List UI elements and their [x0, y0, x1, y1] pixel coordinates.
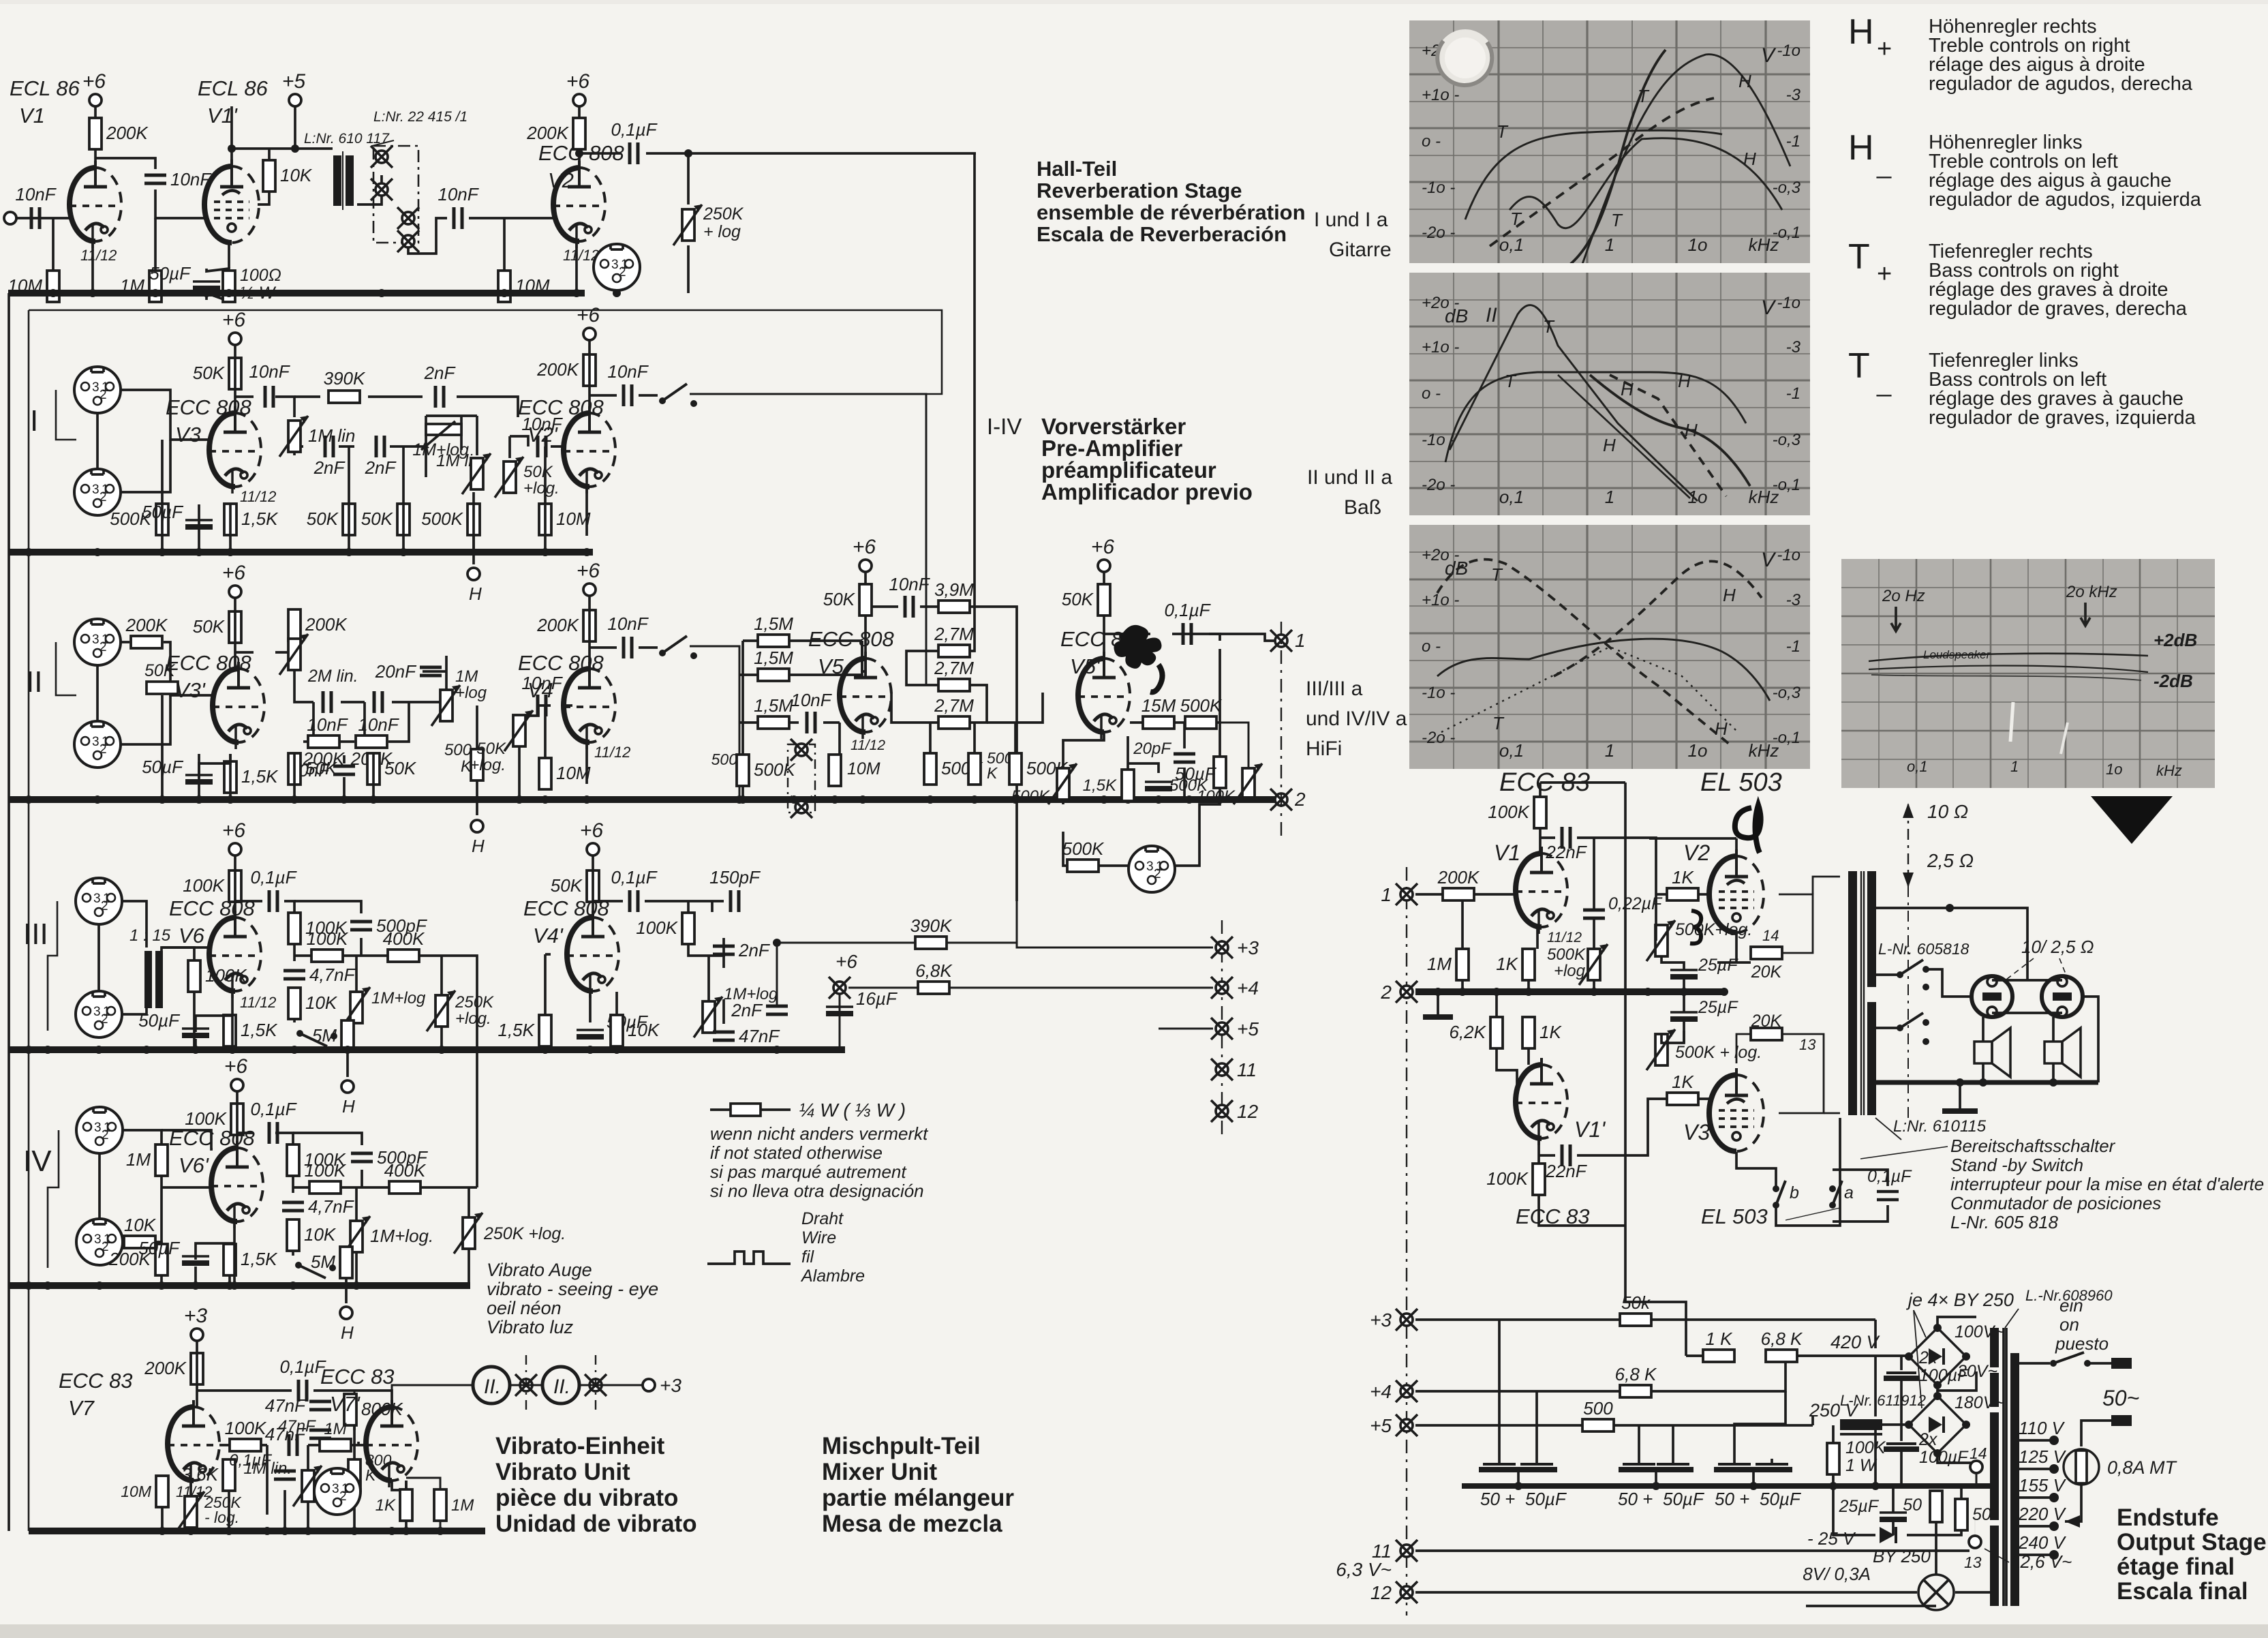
- svg-text:50K: 50K: [307, 509, 339, 529]
- resistor 100K channel IV anode: [185, 1104, 243, 1135]
- din socket channel III lower: [76, 991, 122, 1037]
- speaker socket 2: [2042, 976, 2083, 1017]
- diode BY250: [1873, 1527, 1931, 1566]
- channel I ground bus: [9, 549, 593, 556]
- svg-text:1M: 1M: [451, 1496, 474, 1515]
- svg-text:V3': V3': [175, 678, 206, 702]
- resistor 2.7M mixer a: [934, 624, 974, 657]
- svg-text:2nF: 2nF: [424, 363, 457, 383]
- hall ground bus: [8, 290, 585, 297]
- svg-text:11/12: 11/12: [240, 488, 276, 505]
- terminal 1 amp: [1396, 883, 1417, 905]
- svg-text:500: 500: [444, 741, 472, 759]
- svg-text:Vibrato Auge: Vibrato Auge: [487, 1260, 592, 1280]
- svg-text:V2: V2: [1683, 840, 1710, 865]
- terminal 13: [1969, 1536, 1981, 1548]
- resistor 500 supply: [1582, 1398, 1614, 1431]
- svg-text:+log.: +log.: [470, 756, 506, 774]
- bottom scan shadow: [0, 1624, 2268, 1638]
- callout 10/2.5 to sockets: [2004, 958, 2068, 982]
- resistor 1.5K ch III b: [498, 1015, 552, 1046]
- svg-text:+6: +6: [82, 70, 106, 93]
- legend wire symbol: [707, 1252, 791, 1264]
- tube label ECC83 amp bottom: [1516, 1204, 1590, 1228]
- svg-text:_: _: [1876, 369, 1892, 397]
- capacitor 50uF ch III b: [577, 1012, 649, 1040]
- svg-text:20nF: 20nF: [375, 661, 417, 682]
- svg-text:2,7M: 2,7M: [934, 624, 974, 644]
- resistor 10K ch III b: [611, 1015, 660, 1046]
- chart panel II curves: [1445, 305, 1750, 501]
- supply +6 channel III V4p: [580, 819, 604, 855]
- resistor 10K screen: [263, 160, 313, 192]
- channel I bottom legs: [162, 446, 545, 564]
- svg-text:10nF: 10nF: [889, 574, 930, 594]
- capacitor 2x100uF a: [1884, 1348, 1969, 1412]
- svg-text:13: 13: [1799, 1036, 1816, 1053]
- svg-text:-1o -: -1o -: [1422, 179, 1455, 197]
- capacitor 0.1uF mixer out: [1164, 600, 1211, 645]
- svg-text:BY 250: BY 250: [1873, 1546, 1931, 1566]
- svg-text:3: 3: [93, 1005, 101, 1019]
- svg-text:10nF: 10nF: [307, 714, 348, 735]
- reverb drive transformer L-Nr 610117: [304, 131, 390, 210]
- potentiometer 250K log hall: [673, 204, 702, 245]
- resistor 10K ch III: [288, 988, 338, 1019]
- capacitor 0.1uF ch III: [250, 867, 297, 912]
- svg-text:50K: 50K: [523, 463, 553, 481]
- svg-text:I-IV: I-IV: [987, 414, 1022, 439]
- junction hall a3: [291, 145, 299, 153]
- svg-text:390K: 390K: [910, 915, 953, 936]
- supply +6 channel III: [222, 819, 246, 855]
- svg-text:-1: -1: [1786, 132, 1800, 151]
- negative rail network: [1817, 1486, 1961, 1575]
- svg-text:1 W: 1 W: [1845, 1456, 1878, 1475]
- left frame outer: [7, 293, 10, 1531]
- vibrato eye terminal 1: [515, 1374, 537, 1396]
- capacitor 47nF vib c: [289, 1434, 297, 1456]
- tube V2 ECC808: [553, 161, 605, 248]
- svg-text:2nF: 2nF: [731, 1000, 763, 1020]
- tube V6 ECC808: [209, 911, 261, 998]
- svg-text:1: 1: [103, 1005, 110, 1019]
- mains transformer core: [1990, 1328, 2019, 1606]
- svg-text:10nF: 10nF: [607, 361, 649, 382]
- svg-text:ein: ein: [2059, 1295, 2083, 1316]
- svg-text:0,1µF: 0,1µF: [250, 1099, 297, 1119]
- wire 6.8K to +4 terminal: [949, 987, 1213, 989]
- capacitor 10nF ch I: [249, 361, 290, 408]
- svg-text:1: 1: [621, 258, 628, 272]
- svg-text:V4: V4: [527, 678, 553, 702]
- svg-text:-3: -3: [1786, 591, 1801, 609]
- svg-text:V6': V6': [179, 1153, 209, 1177]
- reverb terminal c: [397, 207, 419, 229]
- svg-text:2,7M: 2,7M: [934, 658, 974, 678]
- supply +3 vibrato: [184, 1305, 208, 1341]
- vibrato eye lamp 1: [473, 1367, 510, 1404]
- svg-text:V: V: [1761, 297, 1777, 319]
- svg-text:a: a: [1844, 1183, 1854, 1202]
- svg-text:5M: 5M: [312, 1025, 337, 1046]
- svg-text:11/12: 11/12: [240, 994, 276, 1011]
- pilot lamp 8V 0.3A: [1803, 1564, 1954, 1610]
- supply ground bus: [1462, 1483, 1997, 1489]
- standby switch a with 0.1uF: [1829, 1167, 1912, 1222]
- tube V2 EL503: [1709, 849, 1764, 932]
- resistor 50k supply: [1620, 1292, 1651, 1326]
- svg-text:o,1: o,1: [1499, 234, 1524, 255]
- svg-text:500K: 500K: [754, 759, 796, 780]
- svg-text:1,5M: 1,5M: [754, 613, 793, 634]
- filter cap group 3: [1714, 1459, 1802, 1509]
- tube label EL503 amp: [1701, 1204, 1768, 1228]
- channel II anode wiring: [235, 598, 572, 763]
- svg-text:L:Nr. 610115: L:Nr. 610115: [1893, 1117, 1987, 1136]
- svg-text:V6: V6: [179, 924, 205, 947]
- tube V3-prime ECC808: [213, 662, 264, 749]
- resistor 400K ch III: [383, 928, 425, 962]
- svg-text:dB: dB: [1445, 558, 1468, 579]
- svg-text:6,2K: 6,2K: [1450, 1022, 1487, 1042]
- resistor 6.8K supply a: [1761, 1329, 1803, 1362]
- svg-text:10nF: 10nF: [791, 690, 832, 710]
- svg-text:13: 13: [1964, 1553, 1982, 1571]
- svg-text:2nF: 2nF: [738, 940, 771, 960]
- svg-text:Endstufe: Endstufe: [2117, 1504, 2219, 1531]
- svg-text:11/12: 11/12: [850, 738, 885, 753]
- capacitor 10nF mixer: [791, 690, 832, 733]
- svg-text:1 : 15: 1 : 15: [129, 926, 171, 945]
- svg-text:1: 1: [102, 380, 109, 395]
- svg-text:EL 503: EL 503: [1700, 768, 1782, 797]
- din socket channel IV upper: [76, 1107, 123, 1153]
- potentiometer 500K+log amp c: [1646, 1029, 1675, 1070]
- channel III cathode legs: [196, 991, 348, 1077]
- svg-text:K: K: [987, 764, 998, 782]
- svg-text:100K: 100K: [636, 917, 678, 938]
- mixer interface dash-dot line: [1221, 920, 1223, 1137]
- resistor 50K ch I a: [307, 504, 355, 535]
- svg-text:50µF: 50µF: [1663, 1489, 1705, 1509]
- svg-text:50µF: 50µF: [1760, 1489, 1802, 1509]
- caption I und I a Gitarre: [1314, 209, 1392, 261]
- resistor 10M V2 grid: [498, 271, 550, 302]
- chart panel IV (output response) background+grid: [1841, 559, 2215, 788]
- svg-text:16µF: 16µF: [856, 988, 898, 1009]
- resistor 10M ch II: [539, 758, 591, 789]
- terminal 1-2 dash line x1880: [1281, 622, 1282, 840]
- svg-text:2nF: 2nF: [313, 457, 346, 478]
- tube label ECC808 V3p: [166, 651, 252, 702]
- terminal 14 leg: [1976, 1473, 1978, 1486]
- terminal 13 leg: [1974, 1513, 1976, 1535]
- svg-text:22nF: 22nF: [1545, 1161, 1587, 1181]
- svg-text:50K: 50K: [1062, 589, 1094, 609]
- callout line to standby text: [1786, 1147, 1948, 1220]
- svg-text:50µF: 50µF: [1175, 763, 1217, 784]
- capacitor 16uF tail: [826, 988, 898, 1016]
- svg-text:L-Nr. 605818: L-Nr. 605818: [1878, 940, 1970, 958]
- svg-text:6,8 K: 6,8 K: [1615, 1364, 1657, 1384]
- svg-text:25µF: 25µF: [1839, 1497, 1880, 1516]
- svg-text:regulador de graves, izquierda: regulador de graves, izquierda: [1929, 407, 2196, 429]
- resistor 10M ch I: [539, 504, 591, 535]
- svg-text:2: 2: [1380, 982, 1392, 1003]
- svg-text:500K: 500K: [1180, 695, 1223, 716]
- legend wire note text: [800, 1209, 865, 1286]
- svg-text:-1o: -1o: [1777, 42, 1800, 60]
- resistor 1K supply: [1703, 1329, 1734, 1362]
- title Endstufe: [2117, 1504, 2267, 1605]
- wire 390K left: [777, 942, 915, 944]
- svg-text:50µF: 50µF: [138, 1010, 181, 1031]
- svg-text:Wire: Wire: [801, 1228, 836, 1247]
- svg-text:V3: V3: [1683, 1120, 1710, 1144]
- svg-text:0,22µF: 0,22µF: [1608, 894, 1663, 913]
- label Vibrato Auge: [487, 1260, 658, 1337]
- svg-text:T: T: [1848, 346, 1870, 386]
- tube V7-prime ECC83: [366, 1400, 418, 1487]
- svg-text:1: 1: [102, 633, 109, 647]
- supply bus dots: [1514, 1482, 1880, 1490]
- potentiometer 500K+log amp b: [1646, 920, 1675, 961]
- resistor 1.5K ch II: [224, 761, 279, 793]
- title Vorverstaerker: [1041, 414, 1253, 504]
- svg-text:2o Hz: 2o Hz: [1882, 587, 1925, 605]
- switch channel IV: [295, 1262, 336, 1278]
- svg-text:+6: +6: [580, 819, 604, 842]
- channel III anode wiring: [235, 855, 477, 1187]
- svg-text:1o: 1o: [1688, 234, 1708, 255]
- svg-text:10M: 10M: [847, 759, 880, 778]
- potentiometer 1M+log ch III: [341, 987, 370, 1028]
- svg-text:ECL 86: ECL 86: [198, 76, 269, 100]
- svg-text:200K: 200K: [1437, 867, 1480, 888]
- svg-text:Hall-Teil: Hall-Teil: [1037, 157, 1117, 181]
- svg-text:T: T: [1505, 371, 1517, 391]
- label je 4x BY250: [1905, 1290, 2014, 1408]
- capacitor 10nF ch I out-coup: [521, 414, 563, 457]
- svg-text:2nF: 2nF: [365, 457, 397, 478]
- vibrato ground bus: [29, 1528, 485, 1534]
- din socket hall output: [594, 244, 640, 290]
- chart panel IV annotations: [1869, 583, 2197, 779]
- terminal +3 vibrato eye: [643, 1379, 655, 1391]
- svg-text:50K: 50K: [384, 758, 417, 778]
- capacitor 2x100uF b: [1884, 1412, 1969, 1486]
- caption III/IIIa und IV/IVa HiFi: [1306, 678, 1407, 760]
- svg-text:o -: o -: [1422, 132, 1441, 151]
- wire 390K feed from ch III: [776, 943, 778, 954]
- svg-text:1K: 1K: [376, 1496, 396, 1515]
- capacitor 2nF ch I b: [365, 436, 397, 478]
- svg-text:+6: +6: [577, 560, 600, 582]
- svg-text:10K: 10K: [305, 992, 338, 1013]
- ink blob over V5p label: [1114, 625, 1161, 669]
- wire 1M vib out b: [440, 1520, 442, 1531]
- svg-text:1M lin.: 1M lin.: [243, 1459, 292, 1478]
- svg-text:ECC 808: ECC 808: [518, 395, 604, 419]
- potentiometer 1M+log ch I: [462, 453, 491, 494]
- svg-text:ECC 808: ECC 808: [518, 651, 604, 675]
- terminal 12 mixer: [1211, 1100, 1233, 1122]
- svg-text:125 V: 125 V: [2019, 1446, 2067, 1467]
- svg-text:50K: 50K: [361, 509, 394, 529]
- vibrato eye wire mid: [510, 1384, 542, 1386]
- svg-text:1: 1: [102, 483, 109, 497]
- switch channel I output: [659, 384, 697, 407]
- terminal 2 mixer: [1270, 789, 1306, 810]
- svg-text:1M: 1M: [324, 1420, 346, 1438]
- resistor 20K amp b: [1751, 1028, 1782, 1040]
- resistor 50 lamp b: [1955, 1499, 1967, 1530]
- resistor 500K mixer r: [1214, 757, 1226, 788]
- svg-text:ensemble de réverbération: ensemble de réverbération: [1037, 200, 1306, 224]
- svg-text:1,5M: 1,5M: [754, 695, 793, 716]
- svg-text:50K: 50K: [551, 875, 583, 896]
- resistor 2.7M mixer b: [934, 658, 974, 691]
- svg-text:50K: 50K: [823, 589, 856, 609]
- channel I input wiring: [56, 390, 211, 504]
- svg-text:+6: +6: [1091, 536, 1115, 558]
- wire 390K right to +3: [947, 901, 1213, 947]
- svg-text:50 +: 50 +: [1480, 1489, 1515, 1509]
- capacitor 4.7nF ch III: [283, 965, 356, 985]
- channel II grid resistor 50K: [144, 661, 178, 757]
- wire +5 stub: [1159, 1028, 1213, 1030]
- channel II input wiring: [56, 642, 211, 744]
- resistor 1M vibrato out: [434, 1489, 446, 1521]
- svg-text:47nF: 47nF: [739, 1026, 780, 1046]
- resistor 1.5M mixer c: [754, 695, 793, 729]
- din socket mixer output: [1129, 846, 1175, 892]
- svg-text:+: +: [1877, 35, 1892, 63]
- svg-text:3: 3: [92, 483, 99, 497]
- svg-text:50: 50: [1903, 1496, 1922, 1515]
- resistor 500K mixer out: [1180, 695, 1223, 729]
- amp ground bus: [1415, 988, 1724, 995]
- svg-text:3,6K: 3,6K: [182, 1464, 219, 1485]
- potentiometer 1M+log ch IV: [341, 1216, 433, 1257]
- svg-text:6,3 V~: 6,3 V~: [1336, 1559, 1392, 1580]
- svg-text:étage final: étage final: [2117, 1553, 2235, 1580]
- channel IV anode wiring: [237, 1091, 477, 1286]
- svg-text:-o,3: -o,3: [1773, 684, 1801, 702]
- svg-text:H: H: [1723, 585, 1736, 605]
- terminal +3 mixer: [1211, 937, 1233, 958]
- svg-text:500: 500: [1583, 1398, 1613, 1419]
- svg-text:1: 1: [1605, 234, 1614, 255]
- svg-text:V7': V7': [330, 1392, 361, 1416]
- capacitor 10nF input: [15, 184, 57, 229]
- wire 100K pot bottom: [1248, 799, 1250, 800]
- svg-text:10/ 2,5 Ω: 10/ 2,5 Ω: [2021, 937, 2094, 957]
- svg-text:+6: +6: [222, 819, 246, 842]
- tube V4 ECC808: [564, 662, 615, 749]
- potentiometer 1M lin vibrato: [293, 1466, 322, 1506]
- wire 800K join: [354, 1391, 356, 1395]
- resistor 200K vibrato: [144, 1353, 203, 1384]
- resistor 100K vibrato: [225, 1418, 267, 1451]
- supply +6 hall V2: [566, 70, 590, 106]
- resistor 100K ch III fb: [288, 913, 348, 944]
- resistor 20K amp a: [1751, 947, 1782, 959]
- svg-text:1: 1: [1605, 487, 1614, 507]
- svg-text:H: H: [342, 1096, 355, 1117]
- svg-text:1M+log.: 1M+log.: [370, 1226, 433, 1246]
- capacitor 4.7nF ch IV: [282, 1196, 355, 1217]
- svg-text:+: +: [1877, 260, 1892, 288]
- svg-text:50 +: 50 +: [1715, 1489, 1749, 1509]
- tail 2nF leg: [776, 954, 778, 1006]
- svg-text:50K: 50K: [305, 758, 338, 778]
- title Vibrato-Einheit: [495, 1433, 697, 1537]
- svg-text:interrupteur pour la mise en é: interrupteur pour la mise en état d'aler…: [1950, 1174, 2264, 1194]
- capacitor 50uF mixer: [1145, 763, 1217, 791]
- label L-Nr 608960: [2005, 1287, 2113, 1328]
- svg-text:+5: +5: [1370, 1415, 1392, 1436]
- legend T- bass left: [1848, 346, 2196, 429]
- resistor 100K ch III r: [636, 913, 694, 944]
- legend T+ bass right: [1848, 237, 2188, 320]
- svg-text:T: T: [1611, 210, 1623, 230]
- resistor 100K ch IV mid: [305, 1160, 347, 1194]
- tube label ECC808 V6: [169, 896, 256, 947]
- svg-text:je 4× BY 250: je 4× BY 250: [1905, 1290, 2014, 1310]
- svg-text:kHz: kHz: [1749, 740, 1779, 761]
- svg-text:12: 12: [1370, 1582, 1392, 1603]
- resistor 50K ch III V4p: [551, 870, 599, 902]
- resistor 100K ch III tr: [188, 960, 247, 992]
- svg-text:Draht: Draht: [801, 1209, 844, 1228]
- resistor 1K amp V2 grid: [1667, 867, 1698, 900]
- svg-text:Mischpult-Teil: Mischpult-Teil: [822, 1433, 981, 1459]
- din socket channel II lower: [74, 721, 121, 768]
- resistor 50K ch II bt1: [288, 753, 338, 785]
- svg-text:-2dB: -2dB: [2154, 671, 2193, 691]
- capacitor 0.1uF ch IV: [250, 1099, 297, 1144]
- resistor 50K channel I anode: [193, 358, 241, 389]
- potentiometer 100K mixer: [1233, 763, 1262, 804]
- svg-text:T: T: [1492, 713, 1505, 733]
- handwritten 9 over V2: [1735, 805, 1761, 853]
- speaker bus dots: [1956, 1078, 2057, 1087]
- tube label ECL86 V1: [10, 76, 80, 127]
- amp bus dots: [1434, 988, 1728, 996]
- svg-text:H: H: [341, 1322, 354, 1343]
- svg-text:vibrato - seeing - eye: vibrato - seeing - eye: [487, 1279, 658, 1299]
- mixer selector terminal top: [791, 739, 812, 761]
- resistor 100K ch IV fb: [287, 1144, 346, 1176]
- title Mischpult-Teil: [822, 1433, 1014, 1537]
- svg-text:3,9M: 3,9M: [934, 579, 974, 600]
- svg-text:1,5K: 1,5K: [1083, 776, 1117, 795]
- resistor 800K vib b: [348, 1459, 361, 1491]
- svg-text:+6: +6: [566, 70, 590, 93]
- svg-text:250K: 250K: [703, 204, 744, 224]
- svg-text:- 25 V: - 25 V: [1807, 1528, 1856, 1549]
- resistor 1.5M mixer b: [754, 648, 793, 681]
- left frame inner: [28, 310, 30, 1531]
- channel III input wiring: [48, 901, 209, 1050]
- capacitor 25uF negative rail: [1880, 1513, 1907, 1522]
- resistor 10M V1 grid: [7, 271, 59, 302]
- tube label ECC808 V4p: [523, 896, 610, 947]
- capacitor 50uF ch III: [138, 1010, 209, 1038]
- svg-text:+ log: + log: [703, 222, 741, 241]
